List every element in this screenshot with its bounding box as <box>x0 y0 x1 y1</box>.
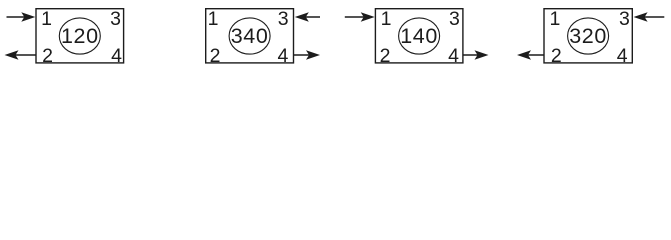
output arrow from pin 4 of U2 <box>293 50 320 60</box>
value circle of U1 <box>59 18 100 54</box>
svg-text:2: 2 <box>380 45 391 67</box>
svg-text:1: 1 <box>381 8 392 30</box>
input arrow into pin 3 of U4 <box>634 12 665 22</box>
svg-text:1: 1 <box>41 8 52 30</box>
pin 1 <box>549 8 560 30</box>
pin 2 <box>210 45 221 67</box>
svg-text:1: 1 <box>549 8 560 30</box>
svg-text:1: 1 <box>208 8 219 30</box>
pin 3 <box>110 8 121 30</box>
svg-text:3: 3 <box>449 8 460 30</box>
pin 3 <box>449 8 460 30</box>
svg-text:3: 3 <box>619 8 630 30</box>
output arrow from pin 2 of U4 <box>517 50 545 60</box>
value label 320 <box>569 24 607 48</box>
svg-text:2: 2 <box>551 45 562 67</box>
pin 2 <box>551 45 562 67</box>
svg-text:3: 3 <box>278 8 289 30</box>
svg-text:4: 4 <box>111 45 122 67</box>
svg-text:3: 3 <box>110 8 121 30</box>
pin 4 <box>448 45 459 67</box>
input arrow into pin 1 of U3 <box>345 12 375 22</box>
pin 3 <box>619 8 630 30</box>
pin 1 <box>381 8 392 30</box>
svg-text:4: 4 <box>277 45 288 67</box>
output arrow from pin 2 of U1 <box>5 50 37 60</box>
svg-text:140: 140 <box>400 24 438 48</box>
svg-text:2: 2 <box>42 45 53 67</box>
svg-text:4: 4 <box>617 45 628 67</box>
pin 2 <box>380 45 391 67</box>
svg-text:340: 340 <box>231 24 269 48</box>
value label 140 <box>400 24 438 48</box>
output arrow from pin 4 of U3 <box>463 50 489 60</box>
svg-text:120: 120 <box>61 24 99 48</box>
value label 340 <box>231 24 269 48</box>
value circle of U4 <box>568 18 609 54</box>
pin 4 <box>617 45 628 67</box>
value label 120 <box>61 24 99 48</box>
input arrow into pin 3 of U2 <box>295 12 320 22</box>
pin 4 <box>111 45 122 67</box>
pin 1 <box>208 8 219 30</box>
input arrow into pin 1 of U1 <box>7 12 36 22</box>
IC U1 package outline <box>36 9 124 63</box>
svg-text:2: 2 <box>210 45 221 67</box>
svg-text:4: 4 <box>448 45 459 67</box>
pin 1 <box>41 8 52 30</box>
value circle of U3 <box>399 18 440 54</box>
value circle of U2 <box>229 18 270 54</box>
pin 2 <box>42 45 53 67</box>
pin 3 <box>278 8 289 30</box>
IC U2 package outline <box>206 9 294 63</box>
IC U4 package outline <box>544 9 632 63</box>
pin 4 <box>277 45 288 67</box>
IC U3 package outline <box>375 9 463 63</box>
svg-text:320: 320 <box>569 24 607 48</box>
